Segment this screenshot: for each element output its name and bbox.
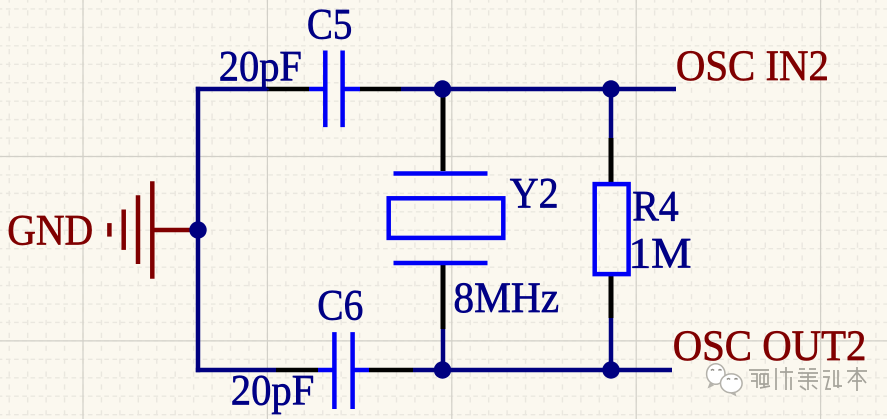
C5 left plate [323,51,328,128]
GND bar 1 (tallest) [150,181,155,279]
svg-text:C5: C5 [307,0,352,48]
svg-text:Y2: Y2 [510,170,559,218]
C6 right stub [353,368,369,373]
R4 body rectangle [595,184,629,274]
power port GND [109,181,198,279]
wire: Y2 bottom vertical stub [441,329,446,370]
C6 left stub [318,368,334,373]
char ji [823,370,842,389]
char jian [776,367,793,390]
pin 2 of C6 (black lead) [369,368,413,373]
char bi [798,369,818,390]
Y2 top plate [394,171,488,176]
wire: R4 top vertical stub [609,91,614,138]
GND stub wire [152,228,198,233]
wire: top rail right segment [401,87,676,92]
wire: left vertical bus from top rail to bottom rail [196,87,201,372]
C5 left stub [309,87,325,92]
watermark wechat logo [707,364,743,397]
R4 bottom pin (black) [609,274,614,318]
svg-text:OSC OUT2: OSC OUT2 [673,322,867,370]
pin 1 of C5 (black lead) [267,87,309,92]
C5 right plate [340,51,345,128]
GND bar 3 [121,210,126,250]
Y2 bottom pin (black) [441,265,446,329]
char ben [847,367,867,391]
char ying [749,370,770,388]
junction at R4 top node [602,80,619,97]
R4 top pin (black) [609,138,614,184]
C6 right plate [350,332,355,409]
wire: R4 bottom vertical stub [609,318,614,370]
resistor R4 [595,138,629,318]
Y2 body rectangle [389,198,504,238]
Y2 bottom plate [394,261,488,266]
watermark logo eyes [711,370,738,380]
svg-text:1M: 1M [629,230,692,278]
watermark text (stylized CJK strokes) [749,367,867,391]
svg-text:GND: GND [7,207,93,255]
capacitor C5 [267,51,401,128]
pin 1 of C6 (black lead) [276,368,318,373]
GND bar 4 (shortest) [107,223,112,237]
svg-text:8MHz: 8MHz [453,274,559,322]
wire: top rail left segment [196,87,267,92]
svg-text:OSC IN2: OSC IN2 [676,42,829,90]
svg-text:20pF: 20pF [219,43,302,91]
GND bar 2 [136,195,141,264]
pin 2 of C5 (black lead) [360,87,401,92]
Y2 top pin (black) [441,91,446,171]
junction at C5/Y2 top node [434,80,451,97]
C5 right stub [343,87,360,92]
svg-text:20pF: 20pF [231,367,314,415]
C6 left plate [332,332,337,409]
capacitor C6 [276,332,413,409]
crystal Y2 [389,91,504,329]
wire: bottom rail left segment [196,368,276,373]
junction at Y2 bottom node [434,361,451,378]
svg-text:R4: R4 [632,183,679,231]
svg-text:C6: C6 [317,281,363,329]
junction at R4 bottom node [602,361,619,378]
junction at GND node [189,221,206,238]
wire: bottom rail right segment [413,368,672,373]
